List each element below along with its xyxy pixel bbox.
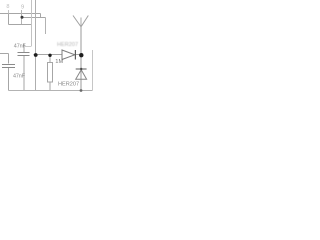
antenna E1 left arm bbox=[73, 16, 81, 27]
wire: capacitor C2 top lead bbox=[8, 54, 10, 64]
antenna E1 centre element bbox=[80, 18, 82, 27]
resistor R1 body bbox=[48, 63, 53, 83]
wire: faint jog C1 to vertical bbox=[24, 46, 32, 48]
node C junction dot (antenna/diodes) bbox=[79, 53, 83, 57]
node B junction dot bbox=[34, 53, 38, 57]
svg-text:47nF: 47nF bbox=[13, 74, 26, 80]
wire: drop at x=40 bbox=[40, 14, 42, 19]
wire: faint right vertical bbox=[92, 50, 94, 91]
wire: bottom ground bus bbox=[9, 90, 93, 92]
svg-text:9: 9 bbox=[21, 4, 24, 10]
wire: capacitor C1 top lead bbox=[23, 44, 25, 53]
wire: node row horizontal to diode D1 anode bbox=[34, 54, 63, 56]
wire: second horizontal from node A bbox=[22, 17, 46, 19]
svg-text:1M: 1M bbox=[55, 59, 63, 65]
node D junction dot (resistor top) bbox=[48, 54, 51, 57]
antenna E1 right arm bbox=[81, 16, 88, 27]
wire: third horizontal bbox=[9, 24, 32, 26]
wire: D1 cathode to node C bbox=[75, 54, 82, 56]
wire: top horizontal from terminal 1 bbox=[0, 13, 41, 15]
capacitor C2 top plate bbox=[2, 64, 15, 66]
node F dot (D2 bar crossing) bbox=[80, 68, 82, 70]
capacitor C1 bottom plate bbox=[18, 55, 30, 57]
node E junction dot (bus) bbox=[80, 89, 83, 92]
diode D2 triangle bbox=[76, 70, 87, 80]
diode D1 cathode bar bbox=[74, 50, 76, 60]
wire: capacitor C2 bottom lead to bus bbox=[8, 68, 10, 91]
node A junction dot bbox=[21, 16, 24, 19]
diode D2 cathode bar bbox=[76, 68, 87, 70]
svg-text:HER207: HER207 bbox=[58, 82, 79, 88]
wire: faint vertical pair left bbox=[31, 0, 33, 46]
svg-text:8: 8 bbox=[6, 4, 9, 10]
wire: drop at x=45 bbox=[45, 18, 47, 35]
svg-text:HER207: HER207 bbox=[57, 42, 78, 48]
wire: left drop below top wire bbox=[8, 14, 10, 25]
wire: resistor R1 top lead bbox=[49, 55, 51, 63]
svg-text:47nF: 47nF bbox=[14, 43, 27, 49]
wire: capacitor C1 bottom lead to bus bbox=[23, 56, 25, 91]
diode D1 triangle bbox=[62, 50, 75, 60]
capacitor C2 bottom plate bbox=[2, 67, 15, 69]
wire: resistor R1 bottom lead bbox=[49, 82, 51, 91]
wire: terminal 1 stem down bbox=[8, 10, 10, 14]
capacitor C1 top plate bbox=[18, 52, 30, 54]
wire: antenna stem down through node C to bus bbox=[80, 27, 82, 91]
wire: left horizontal to capacitor C2 bbox=[0, 53, 9, 55]
wire: terminal 2 stem through node A bbox=[21, 10, 23, 25]
wire: vertical to node B and ground bus bbox=[35, 0, 37, 91]
